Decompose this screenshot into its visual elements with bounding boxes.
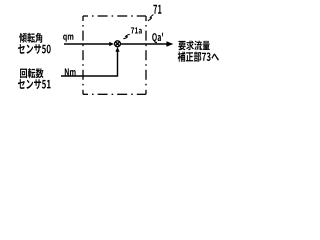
text: ref numeral 71a [131, 27, 142, 33]
text: label sensor 51 [18, 79, 51, 89]
text: label hoseibu 73 e (to correction part 73) [178, 52, 219, 62]
text: label sensor 50 [18, 44, 51, 54]
text: signal label Nm [65, 68, 76, 75]
dash-dot box 71, bottom edge [83, 93, 146, 95]
text: ref numeral 71 [153, 5, 161, 14]
wire: Nm from speed sensor, horizontal run [61, 75, 118, 77]
wire: output Qa' from multiplier [121, 43, 168, 45]
wire: Nm vertical run up to multiplier [117, 51, 119, 77]
leader line for 71 [148, 15, 154, 21]
text: signal label Qa' [152, 33, 163, 43]
wire: qm from tilt sensor to multiplier 71a [64, 43, 111, 45]
text: label youkyuu ryuuryou (required flow) [178, 41, 210, 51]
multiplier node 71a: circle with X [115, 41, 121, 47]
leader line for 71a [123, 34, 130, 39]
arrowhead output to correction part 73 [166, 41, 173, 47]
dash-dot box 71, right edge [145, 16, 147, 94]
dash-dot box 71 (flow computing section), top edge [83, 15, 146, 17]
arrowhead qm into multiplier [109, 42, 114, 46]
text: label keiten-kaku (tilt angle) [19, 33, 42, 43]
arrowhead Nm into multiplier bottom [115, 47, 119, 52]
text: signal label qm [63, 35, 73, 42]
dash-dot box 71, left edge [82, 16, 84, 94]
text: label kaitensu (rotation speed) [20, 68, 43, 78]
